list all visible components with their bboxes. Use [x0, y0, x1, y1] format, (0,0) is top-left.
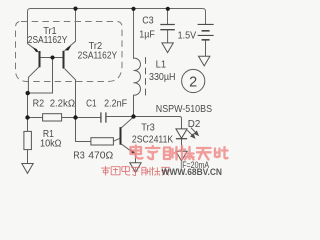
junction dot rail-L1 — [131, 7, 135, 11]
watermark big red characters — [131, 146, 228, 160]
LED D2 emission arrows — [187, 128, 198, 138]
junction dot bases — [51, 56, 55, 60]
svg-text:1.5V: 1.5V — [178, 30, 197, 41]
wire LED cathode to ground — [181, 139, 183, 151]
transistor Tr2 bar — [63, 51, 65, 69]
wire LED branch horizontal and down — [134, 117, 182, 129]
junction dot L1 bottom / Tr3 collector — [131, 114, 135, 118]
capacitor C3 lower stem — [167, 30, 169, 43]
transistor Tr2 emitter arrowhead — [65, 46, 71, 51]
capacitor C1 leads — [76, 117, 134, 118]
resistor R1 lead and drop — [27, 118, 29, 164]
svg-text:330µH: 330µH — [149, 72, 176, 83]
junction dot rail-Tr2 — [73, 7, 77, 11]
transistor Q Tr1 base lead — [41, 57, 52, 59]
svg-text:2: 2 — [189, 74, 197, 90]
ground arrow under LED — [176, 151, 187, 161]
wire top rail with left and right corners — [28, 9, 206, 44]
svg-text:2SA1162Y: 2SA1162Y — [28, 35, 68, 46]
battery B1 plates — [198, 24, 214, 35]
svg-text:R3: R3 — [73, 150, 85, 161]
ground arrow under C3 — [162, 43, 173, 53]
transistor Q Tr2 base lead — [53, 57, 63, 59]
svg-text:C1: C1 — [86, 99, 97, 110]
svg-text:Tr3: Tr3 — [141, 123, 155, 134]
resistor R2 leads — [28, 117, 76, 119]
junction dot node A — [26, 91, 30, 95]
svg-text:2SC2411K: 2SC2411K — [132, 134, 173, 145]
resistor R1 box — [24, 131, 32, 149]
ground arrow under battery — [199, 56, 210, 66]
svg-text:R2: R2 — [33, 99, 45, 110]
inductor L1 coil — [134, 58, 141, 114]
ground arrow under Tr3 emitter — [130, 163, 141, 173]
svg-text:10kΩ: 10kΩ — [40, 138, 62, 149]
junction dot R2 left — [25, 115, 29, 119]
svg-text:2.2nF: 2.2nF — [104, 99, 127, 110]
wire bases drop to node A — [28, 58, 53, 94]
transistor Q Tr3 collector diagonal — [122, 117, 134, 127]
svg-text:C3: C3 — [142, 15, 154, 26]
capacitor C3 plates — [160, 25, 175, 30]
svg-text:D2: D2 — [188, 119, 201, 130]
transistor Tr3 bar — [120, 127, 122, 145]
transistor Tr3 emitter arrowhead — [130, 149, 136, 154]
transistor Q Tr2 collector diagonal + drop — [65, 69, 76, 117]
resistor R3 box — [91, 138, 114, 145]
enclosure dashed box around oscillator — [16, 22, 123, 82]
svg-text:NSPW-510BS: NSPW-510BS — [156, 104, 212, 115]
LED D2 cathode bar — [176, 138, 187, 140]
watermark small red characters — [101, 166, 170, 176]
ground arrow under R1 — [22, 164, 33, 174]
svg-text:470Ω: 470Ω — [88, 150, 113, 161]
svg-text:2.2kΩ: 2.2kΩ — [50, 99, 76, 110]
LED D2 triangle — [176, 129, 187, 138]
wire C3 feed from rail dot — [167, 9, 169, 24]
transistor Tr1 emitter arrowhead — [33, 47, 39, 52]
svg-text:WWW.68BV.CN: WWW.68BV.CN — [162, 167, 223, 177]
transistor Q Tr1 collector diagonal + drop — [28, 67, 39, 93]
junction dot R2 right / C1 — [73, 115, 77, 119]
transistor Q Tr3 emitter diagonal — [122, 144, 133, 152]
resistor R2 box — [43, 114, 62, 121]
inductor L1 core dashed line — [145, 58, 147, 96]
svg-text:1µF: 1µF — [139, 30, 155, 41]
transistor Tr1 bar — [39, 51, 41, 67]
svg-text:L1: L1 — [156, 60, 167, 71]
capacitor C1 plates — [101, 112, 106, 122]
node 2 circled annotation — [182, 69, 205, 92]
transistor Q Tr1 emitter diagonal — [28, 44, 37, 51]
wire Tr3 emitter to ground — [135, 154, 137, 163]
svg-text:2SA1162Y: 2SA1162Y — [78, 50, 118, 61]
wire node A to R2 node — [27, 93, 29, 117]
resistor R3 leads — [76, 118, 121, 142]
transistor Q Tr2 emitter diagonal — [65, 41, 76, 50]
wire L1 feed from rail dot — [133, 9, 135, 58]
junction dot rail-C3 — [166, 7, 170, 11]
wire Tr2 emitter vertical from rail dot — [75, 9, 77, 42]
battery stem to ground — [205, 40, 207, 56]
